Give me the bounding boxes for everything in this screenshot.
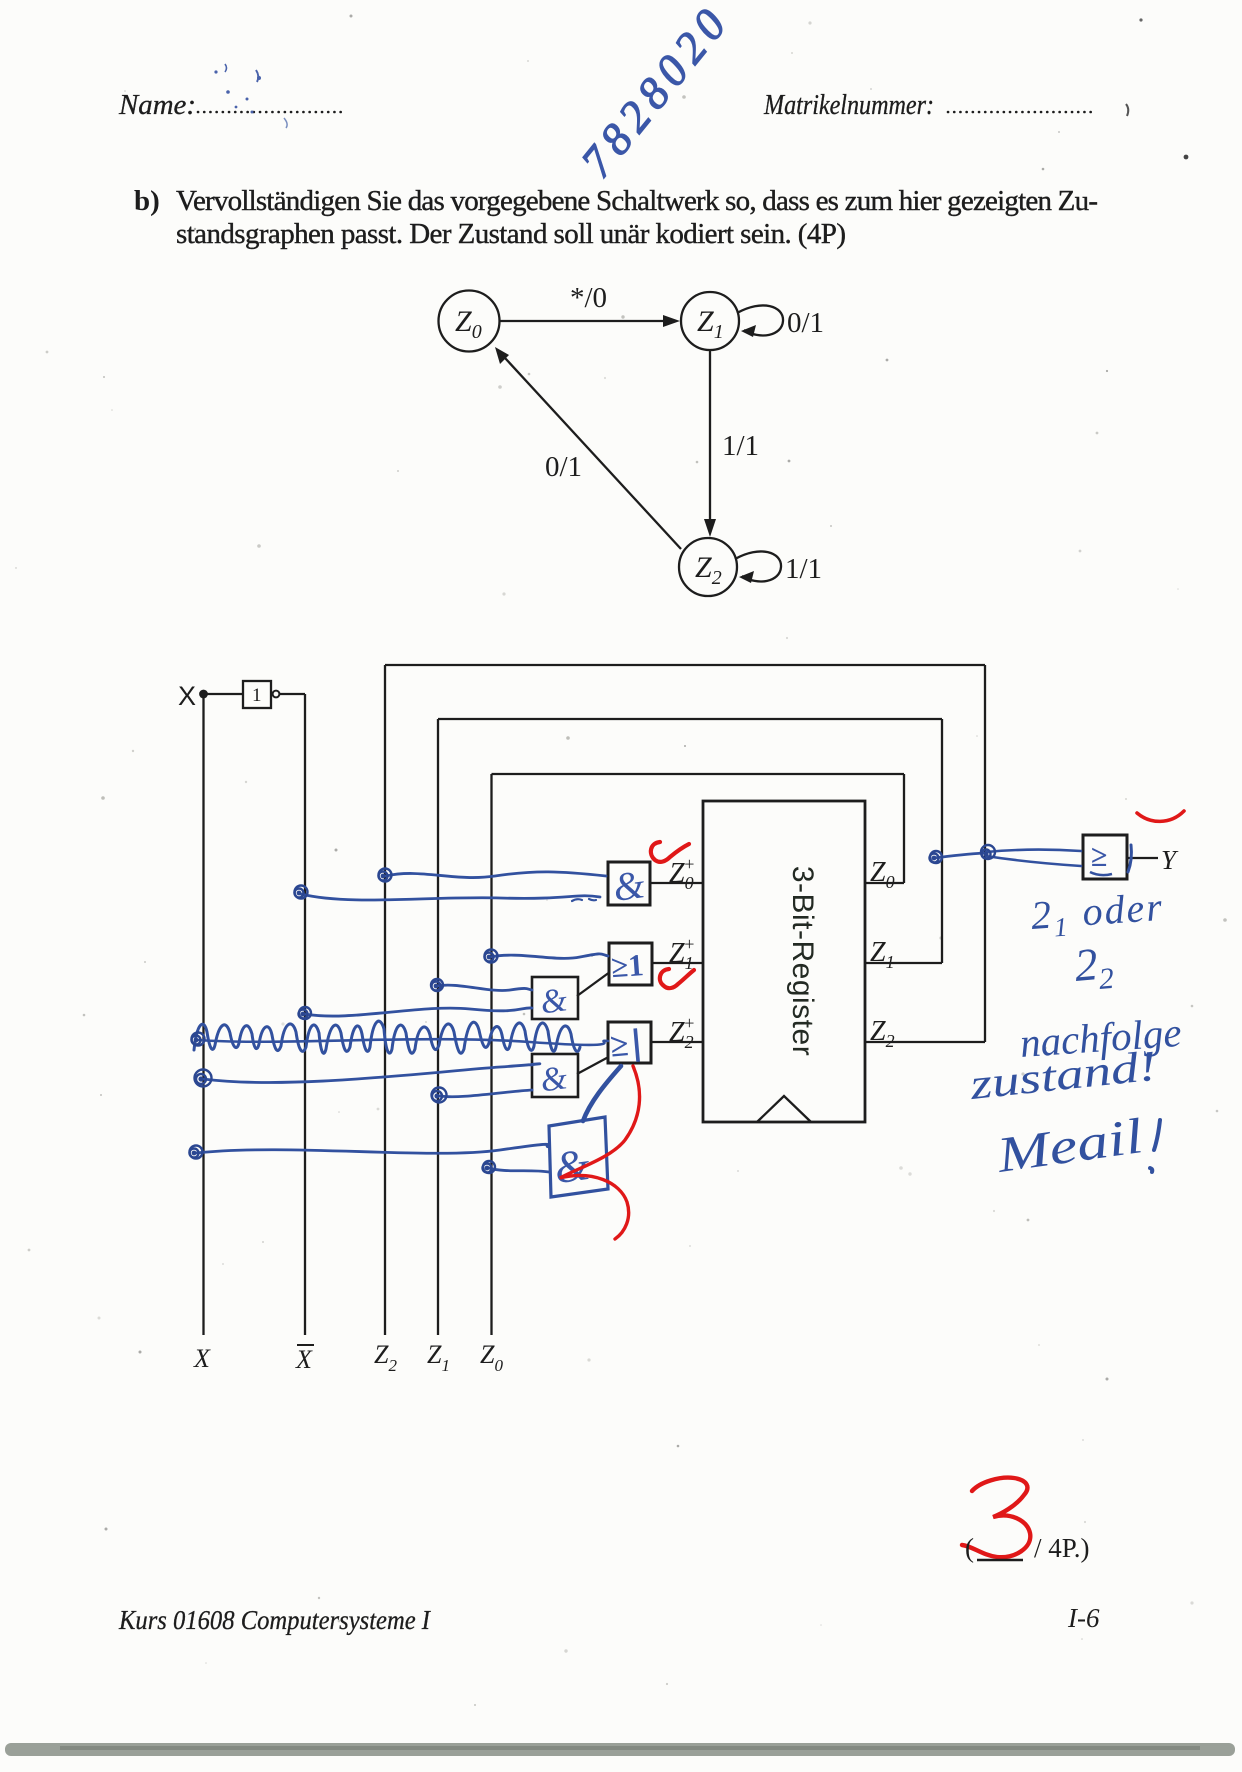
feedback right vertical Z1 [941, 719, 943, 963]
wire OR G7 output to Y [1127, 857, 1158, 859]
blob on Xbar rail (to G3) [299, 1007, 312, 1019]
underline stroke in G7 [1090, 872, 1112, 875]
feedback right vertical Z2 [984, 665, 986, 1042]
svg-text:zustand!: zustand! [967, 1043, 1159, 1109]
svg-text:&: & [538, 1059, 570, 1099]
transition arrow Z0 to Z1 [500, 320, 664, 322]
svg-text:&: & [538, 981, 570, 1021]
svg-text:Y: Y [1161, 845, 1179, 875]
blob on Xbar rail (to G1) [295, 886, 308, 899]
register input wire Z2plus [650, 1041, 703, 1043]
blue tick across Y wire [1128, 845, 1131, 872]
junction blobs (blue ink rings) [190, 845, 996, 1173]
hand wire Z1 rail to AND G5 input 2 [440, 1090, 532, 1097]
wire NOT gate output to Xbar rail [280, 693, 305, 695]
junction dot on X input [199, 690, 208, 699]
handwritten matriculation number 7828020 (blue, rotated) [571, 0, 740, 187]
svg-text:0/1: 0/1 [787, 307, 824, 339]
self loop at Z1 [737, 305, 783, 335]
svg-text:Z0: Z0 [870, 857, 895, 892]
red check below Z1plus [660, 969, 694, 988]
wire AND G3 output to OR G2 [577, 973, 609, 996]
hand wire Z0 rail to hand-drawn AND G6 input 2 [489, 1168, 549, 1172]
svg-text:Z0: Z0 [455, 305, 482, 343]
state Z1 circle [681, 292, 739, 350]
svg-text:Z0+: Z0+ [669, 854, 695, 893]
hand wire Z1 feedback to junction blob [934, 853, 984, 858]
svg-text:Z2+: Z2+ [669, 1013, 695, 1052]
hand wire Xbar rail to AND G1 input 2 [301, 894, 600, 900]
double blob on Z2 feedback vertical [981, 845, 995, 859]
svg-text:0/1: 0/1 [545, 451, 582, 483]
rail Z0 vertical [490, 774, 492, 1335]
svg-text:X: X [295, 1345, 313, 1374]
svg-text:/ 4P.): / 4P.) [1034, 1533, 1090, 1563]
blob on X rail (crossed wire) [192, 1033, 205, 1046]
double blob on X rail (to G5) [195, 1070, 212, 1087]
hand wire Z2 rail to AND G1 input 1 [386, 872, 606, 878]
hand wire Z1 rail to AND G3 input 1 [437, 985, 532, 990]
svg-text:≥∣: ≥∣ [609, 1026, 647, 1065]
svg-text:Z2: Z2 [695, 551, 722, 589]
red grade numeral 3 [962, 1478, 1030, 1558]
bottom rail label Xbar overline [297, 1344, 314, 1346]
state Z2 circle [679, 538, 737, 596]
blob centers [192, 851, 989, 1170]
hand wire X rail to hand-drawn AND G6 input 1 [196, 1144, 549, 1153]
svg-text:Matrikelnummer:: Matrikelnummer: [763, 90, 934, 121]
blob on Z0 rail (to G2) [485, 950, 498, 963]
hand wire junction blob to OR G7 input 1 [986, 850, 1081, 852]
svg-text:Name:: Name: [118, 90, 196, 121]
feedback top wire Z1 [438, 718, 942, 720]
blob on Z1 rail (to G5) [432, 1088, 447, 1103]
arrowhead self loop Z1 [741, 325, 756, 337]
scanner band at bottom [5, 1743, 1235, 1756]
rail X vertical [202, 694, 204, 1335]
svg-text:Kurs 01608 Computersysteme I: Kurs 01608 Computersysteme I [118, 1605, 432, 1635]
svg-text:Z2: Z2 [870, 1016, 895, 1051]
register output wire Z1 [865, 962, 942, 964]
transition arrow Z1 to Z2 [709, 350, 711, 521]
svg-text:Z1: Z1 [427, 1340, 450, 1375]
crossing-out zigzag scribble [194, 1021, 580, 1053]
input label X wire to NOT gate [207, 693, 243, 695]
transition arrow Z2 to Z0 [505, 358, 681, 549]
register input wire Z0plus [650, 882, 703, 884]
svg-text:Z0: Z0 [480, 1340, 503, 1375]
hand wire junction blob to OR G7 input 2 [986, 856, 1081, 866]
hand wire Xbar rail to AND G3 input 2 [305, 1008, 532, 1016]
blob on Z1 rail (to G3) [431, 979, 443, 991]
svg-text:&: & [610, 861, 647, 910]
svg-text:Z1+: Z1+ [669, 934, 695, 973]
svg-text:1/1: 1/1 [785, 553, 822, 585]
dotted line after Matrikelnummer [948, 111, 1091, 114]
svg-text:1: 1 [252, 685, 262, 706]
svg-text:b): b) [134, 185, 160, 217]
blob on Z2 rail (to G1) [379, 869, 392, 882]
register clock chevron [757, 1096, 811, 1122]
state Z0 circle [439, 291, 500, 352]
dotted line after Name [198, 111, 344, 114]
rail Z2 vertical [384, 665, 386, 1335]
register input wire Z1plus [652, 962, 703, 964]
arrowhead Z2 to Z0 [495, 347, 509, 364]
feedback right vertical Z0 [903, 774, 905, 883]
small pen marks at AND G1 input [572, 899, 596, 901]
feedback top wire Z0 [492, 773, 905, 775]
register output wire Z2 [865, 1041, 985, 1043]
OR gate G7 box (to Y) [1083, 835, 1127, 879]
NOT gate inversion bubble [273, 691, 280, 698]
OR gate G2 box (Z1plus) [609, 943, 652, 985]
OR gate G4 box (Z2plus) [608, 1022, 651, 1063]
svg-text:Z2: Z2 [374, 1340, 397, 1375]
register box 3-Bit-Register [703, 801, 865, 1122]
svg-text:X: X [178, 681, 196, 711]
svg-text:≥: ≥ [1091, 840, 1107, 873]
NOT gate box [243, 681, 271, 708]
register output wire Z0 [865, 882, 904, 884]
AND gate G5 box [532, 1054, 578, 1097]
blob on Z0 rail (to G6) [483, 1161, 496, 1173]
arrowhead Z1 to Z2 [704, 519, 716, 537]
svg-text:Z1: Z1 [870, 937, 895, 972]
svg-text:standsgraphen passt. Der Zusta: standsgraphen passt. Der Zustand soll un… [176, 218, 846, 250]
red check above Z0plus [651, 842, 689, 862]
svg-text:I-6: I-6 [1067, 1603, 1100, 1633]
blob on X rail (to G6) [190, 1146, 203, 1159]
exclamation of Meail [1150, 1120, 1160, 1172]
AND gate G3 box [532, 977, 578, 1019]
arrowhead self loop Z2 [739, 571, 754, 583]
rail Z1 vertical [437, 719, 439, 1335]
hand wire X rail to AND G5 input 1 [203, 1064, 540, 1083]
svg-text:X: X [193, 1344, 211, 1373]
feedback top wire Z2 [385, 664, 985, 666]
svg-text:Vervollständigen Sie das vorge: Vervollständigen Sie das vorgegebene Sch… [176, 185, 1098, 217]
svg-text:1/1: 1/1 [722, 430, 759, 462]
blob right of register (Z1 tap) [930, 851, 943, 863]
svg-text:7828020: 7828020 [571, 0, 740, 187]
red smile mark top right [1137, 811, 1184, 821]
hand-drawn AND G6 box [549, 1117, 608, 1197]
svg-text:22: 22 [1072, 937, 1115, 998]
svg-text:Meail: Meail [992, 1107, 1146, 1183]
hand wire G6 output to OR G4 [583, 1066, 621, 1121]
svg-text:3-Bit-Register: 3-Bit-Register [786, 866, 819, 1056]
svg-text:(: ( [965, 1533, 974, 1563]
svg-text:Z1: Z1 [697, 305, 724, 343]
blue ink specks near Name line [214, 64, 287, 128]
dark speck top right [1184, 155, 1189, 160]
self loop at Z2 [735, 551, 781, 581]
hand wire X rail to OR G4 (crossed out) [198, 1039, 608, 1045]
hand wire Z0 rail to OR G2 input [490, 954, 608, 958]
svg-text:21oder: 21oder [1029, 884, 1165, 944]
stray pen mark right of dotted line [1126, 104, 1128, 116]
AND gate G1 box (Z0plus) [608, 862, 650, 905]
arrowhead Z0 to Z1 [663, 315, 680, 327]
rail Xbar vertical [304, 694, 306, 1335]
svg-text:≥1: ≥1 [610, 947, 645, 984]
red long squiggle through G6 [560, 1066, 640, 1239]
wire AND G5 output to OR G4 [577, 1057, 609, 1074]
svg-text:*/0: */0 [570, 282, 607, 314]
